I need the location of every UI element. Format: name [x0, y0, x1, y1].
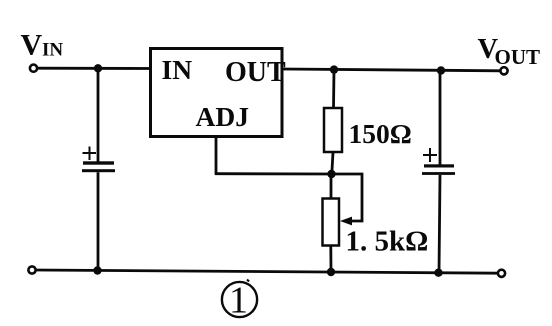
wire C1 branch upper: [97, 68, 100, 161]
label VOUT: [478, 34, 541, 69]
wire RP top lead: [330, 174, 333, 199]
pin label ADJ: [196, 101, 249, 132]
node junction bottom RP: [327, 268, 335, 276]
svg-text:OUT: OUT: [225, 57, 286, 88]
node junction at C2 top: [437, 66, 445, 74]
polarity plus mark C1: [83, 147, 97, 161]
terminal bottom-left: [28, 266, 35, 273]
wire bottom rail: [34, 270, 499, 273]
wire C1 branch lower: [97, 172, 100, 270]
wire R1 top lead: [332, 70, 335, 109]
svg-text:1. 5kΩ: 1. 5kΩ: [346, 226, 429, 258]
wire C2 branch lower: [439, 175, 440, 273]
figure number circle 1: [222, 280, 257, 322]
wire R1 bottom lead: [332, 152, 333, 174]
terminal VOUT: [500, 67, 507, 74]
terminal VIN: [30, 65, 37, 72]
wire ADJ to divider node: [215, 172, 332, 175]
svg-text:ADJ: ADJ: [196, 101, 249, 132]
svg-text:OUT: OUT: [495, 45, 541, 69]
wire RP bottom lead: [329, 246, 332, 273]
wire top rail left (VIN to regulator IN): [36, 67, 151, 70]
speck artifact near figure circle: [247, 280, 249, 282]
node junction top-left: [94, 64, 102, 72]
capacitor C2 (right electrolytic): [422, 164, 455, 175]
terminal bottom-right: [498, 270, 505, 277]
wire top rail right (regulator OUT to VOUT): [282, 69, 501, 71]
svg-text:IN: IN: [42, 40, 63, 61]
node junction bottom C2: [434, 269, 442, 277]
pin label IN: [162, 54, 193, 85]
node junction at R1 top: [330, 65, 338, 73]
label VIN: [21, 28, 64, 61]
value label 1.5k ohm: [346, 226, 429, 258]
svg-text:150Ω: 150Ω: [349, 118, 412, 149]
pin label OUT: [225, 57, 286, 88]
polarity plus mark C2: [423, 148, 437, 162]
wire ADJ pin: [215, 137, 218, 175]
capacitor C1 (left electrolytic): [82, 161, 115, 172]
svg-text:V: V: [21, 28, 43, 61]
wiper arrow of RP: [340, 217, 352, 226]
value label 150 ohm: [349, 118, 412, 149]
resistor R1: [324, 108, 342, 152]
node junction ADJ/divider: [327, 170, 335, 178]
node junction bottom C1: [93, 266, 101, 274]
op-amp U1 (three-terminal regulator box): [151, 49, 283, 137]
wire C2 branch upper: [439, 71, 442, 165]
svg-text:1: 1: [229, 280, 248, 322]
potentiometer RP body: [323, 199, 340, 246]
wire wiper loop: [332, 174, 363, 221]
svg-text:IN: IN: [162, 54, 193, 85]
